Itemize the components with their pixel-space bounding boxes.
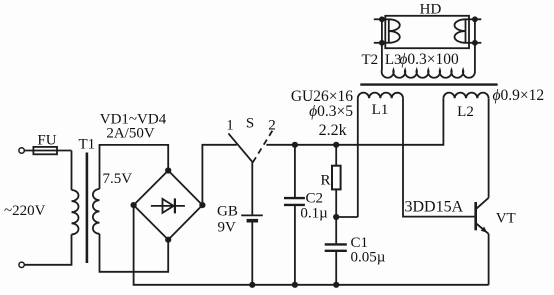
svg-text:9V: 9V (218, 220, 237, 236)
label φ0.3×100 (399, 51, 459, 68)
svg-text:2: 2 (268, 118, 276, 134)
wire L3 left riser to lamp (381, 19, 383, 70)
node lamp bottom-left pin (379, 40, 385, 46)
label 2A/50V (106, 126, 155, 142)
label 2.2k (319, 122, 347, 139)
label R (321, 173, 331, 189)
inductor L1 winding (358, 93, 403, 99)
label S (246, 116, 254, 132)
svg-text:L2: L2 (457, 104, 474, 120)
capacitor C1 (325, 244, 347, 250)
svg-text:3DD15A: 3DD15A (405, 199, 464, 216)
inductor L2 winding (443, 93, 488, 99)
lamp right filament (455, 19, 466, 43)
svg-text:0.05µ: 0.05µ (351, 250, 386, 266)
node bridge left (131, 202, 137, 208)
svg-text:GB: GB (217, 204, 238, 220)
fluorescent lamp HD tube (385, 16, 469, 48)
label 3DD15A (405, 199, 464, 216)
label ~220V (4, 203, 46, 219)
label L3 (385, 52, 402, 68)
label T2 (362, 52, 379, 68)
label 0.1µ (300, 206, 328, 222)
transformer T1 primary winding (72, 190, 79, 234)
resistor R 2.2k (332, 166, 341, 190)
label φ0.9×12 (493, 87, 545, 104)
label 1 (226, 118, 234, 134)
wire node to C1 (335, 217, 337, 243)
wire L1 right riser to base wire (403, 98, 474, 216)
wire C1 to rail (335, 252, 337, 285)
label C2 (306, 191, 324, 207)
node lamp bottom-right pin (472, 40, 478, 46)
svg-text:VT: VT (496, 211, 516, 227)
svg-text:L1: L1 (372, 102, 389, 118)
node bridge top (165, 167, 171, 173)
svg-text:S: S (246, 116, 254, 132)
lamp left filament (389, 19, 400, 43)
label 0.05µ (351, 250, 386, 266)
svg-text:ϕ0.9×12: ϕ0.9×12 (493, 87, 545, 104)
label 7.5V (103, 171, 133, 187)
svg-text:ϕ0.3×5: ϕ0.3×5 (309, 103, 353, 120)
label 2 (268, 118, 276, 134)
wire T1 secondary top to bridge top (100, 145, 169, 189)
node C1-rail (333, 282, 339, 288)
label L2 (457, 104, 474, 120)
svg-text:R: R (321, 173, 331, 189)
node lamp top-left pin (379, 16, 385, 22)
bridge rectifier diamond VD1~VD4 (134, 171, 203, 240)
wire switch contact 2 to L2 left (supply bus) (266, 98, 443, 145)
battery GB (241, 215, 263, 220)
label 9V (218, 220, 237, 236)
svg-text:1: 1 (226, 118, 234, 134)
lamp right pins (466, 19, 482, 43)
wire terminal to fuse (24, 150, 71, 152)
transistor VT emitter lead with arrow (476, 224, 488, 234)
svg-text:T2: T2 (362, 52, 379, 68)
wire L3 right riser to lamp (474, 19, 476, 70)
wire C2 to rail (294, 206, 296, 285)
svg-text:FU: FU (37, 133, 56, 149)
label φ0.3×5 (309, 103, 353, 120)
node battery-rail (249, 282, 255, 288)
label T1 (79, 137, 96, 153)
terminal top-left (19, 148, 24, 153)
svg-text:ϕ0.3×100: ϕ0.3×100 (399, 51, 459, 68)
switch S solid arm (228, 133, 252, 162)
label L1 (372, 102, 389, 118)
wire R to node (335, 189, 337, 217)
label VT (496, 211, 516, 227)
inductor L3 winding (382, 70, 475, 78)
wire L1 left riser (357, 98, 359, 217)
svg-text:7.5V: 7.5V (103, 171, 133, 187)
transistor VT collector lead (476, 198, 488, 209)
svg-text:HD: HD (420, 2, 442, 18)
transistor VT base bar (474, 202, 477, 230)
wire node to L1 left riser (336, 216, 358, 218)
wire battery to rail (251, 221, 253, 285)
wire bus to C2 (294, 145, 296, 197)
wire bridge right up to switch contact 1 (202, 145, 236, 205)
switch S dashed arm (253, 131, 273, 163)
transformer T2 core bar (360, 83, 497, 85)
wire bus to R (335, 145, 337, 166)
capacitor C2 (284, 198, 305, 205)
wire fuse to T1 primary (71, 151, 73, 191)
node bus-R (333, 142, 339, 148)
label VD1~VD4 (100, 112, 167, 128)
diode symbol inside bridge (151, 198, 185, 213)
svg-text:2.2k: 2.2k (319, 122, 347, 139)
lamp left pins (374, 19, 389, 43)
svg-text:2A/50V: 2A/50V (106, 126, 155, 142)
node bridge right (199, 202, 205, 208)
label GB (217, 204, 238, 220)
label C1 (351, 235, 369, 251)
node bus-C2 (292, 142, 298, 148)
transformer T1 secondary winding (93, 189, 100, 234)
wire L2 right to collector (488, 98, 490, 198)
wire bridge left to ground rail (134, 205, 489, 285)
transformer T1 core (86, 153, 89, 264)
label GU26×16 (291, 88, 353, 105)
svg-text:0.1µ: 0.1µ (300, 206, 328, 222)
label HD (420, 2, 442, 18)
wire T1 secondary bottom to bridge bottom (100, 234, 169, 272)
wire emitter to rail (488, 234, 490, 285)
node bridge bottom (165, 237, 171, 243)
node R-C1-L1 (333, 214, 339, 220)
svg-text:C2: C2 (306, 191, 324, 207)
wire switch pole to battery (251, 162, 253, 215)
svg-text:T1: T1 (79, 137, 96, 153)
svg-text:~220V: ~220V (4, 203, 46, 219)
node lamp top-right pin (472, 16, 478, 22)
wire T1 primary bottom to terminal (24, 234, 71, 264)
terminal bottom-left (19, 262, 24, 267)
node C2-rail (292, 282, 298, 288)
fuse FU (33, 133, 57, 155)
